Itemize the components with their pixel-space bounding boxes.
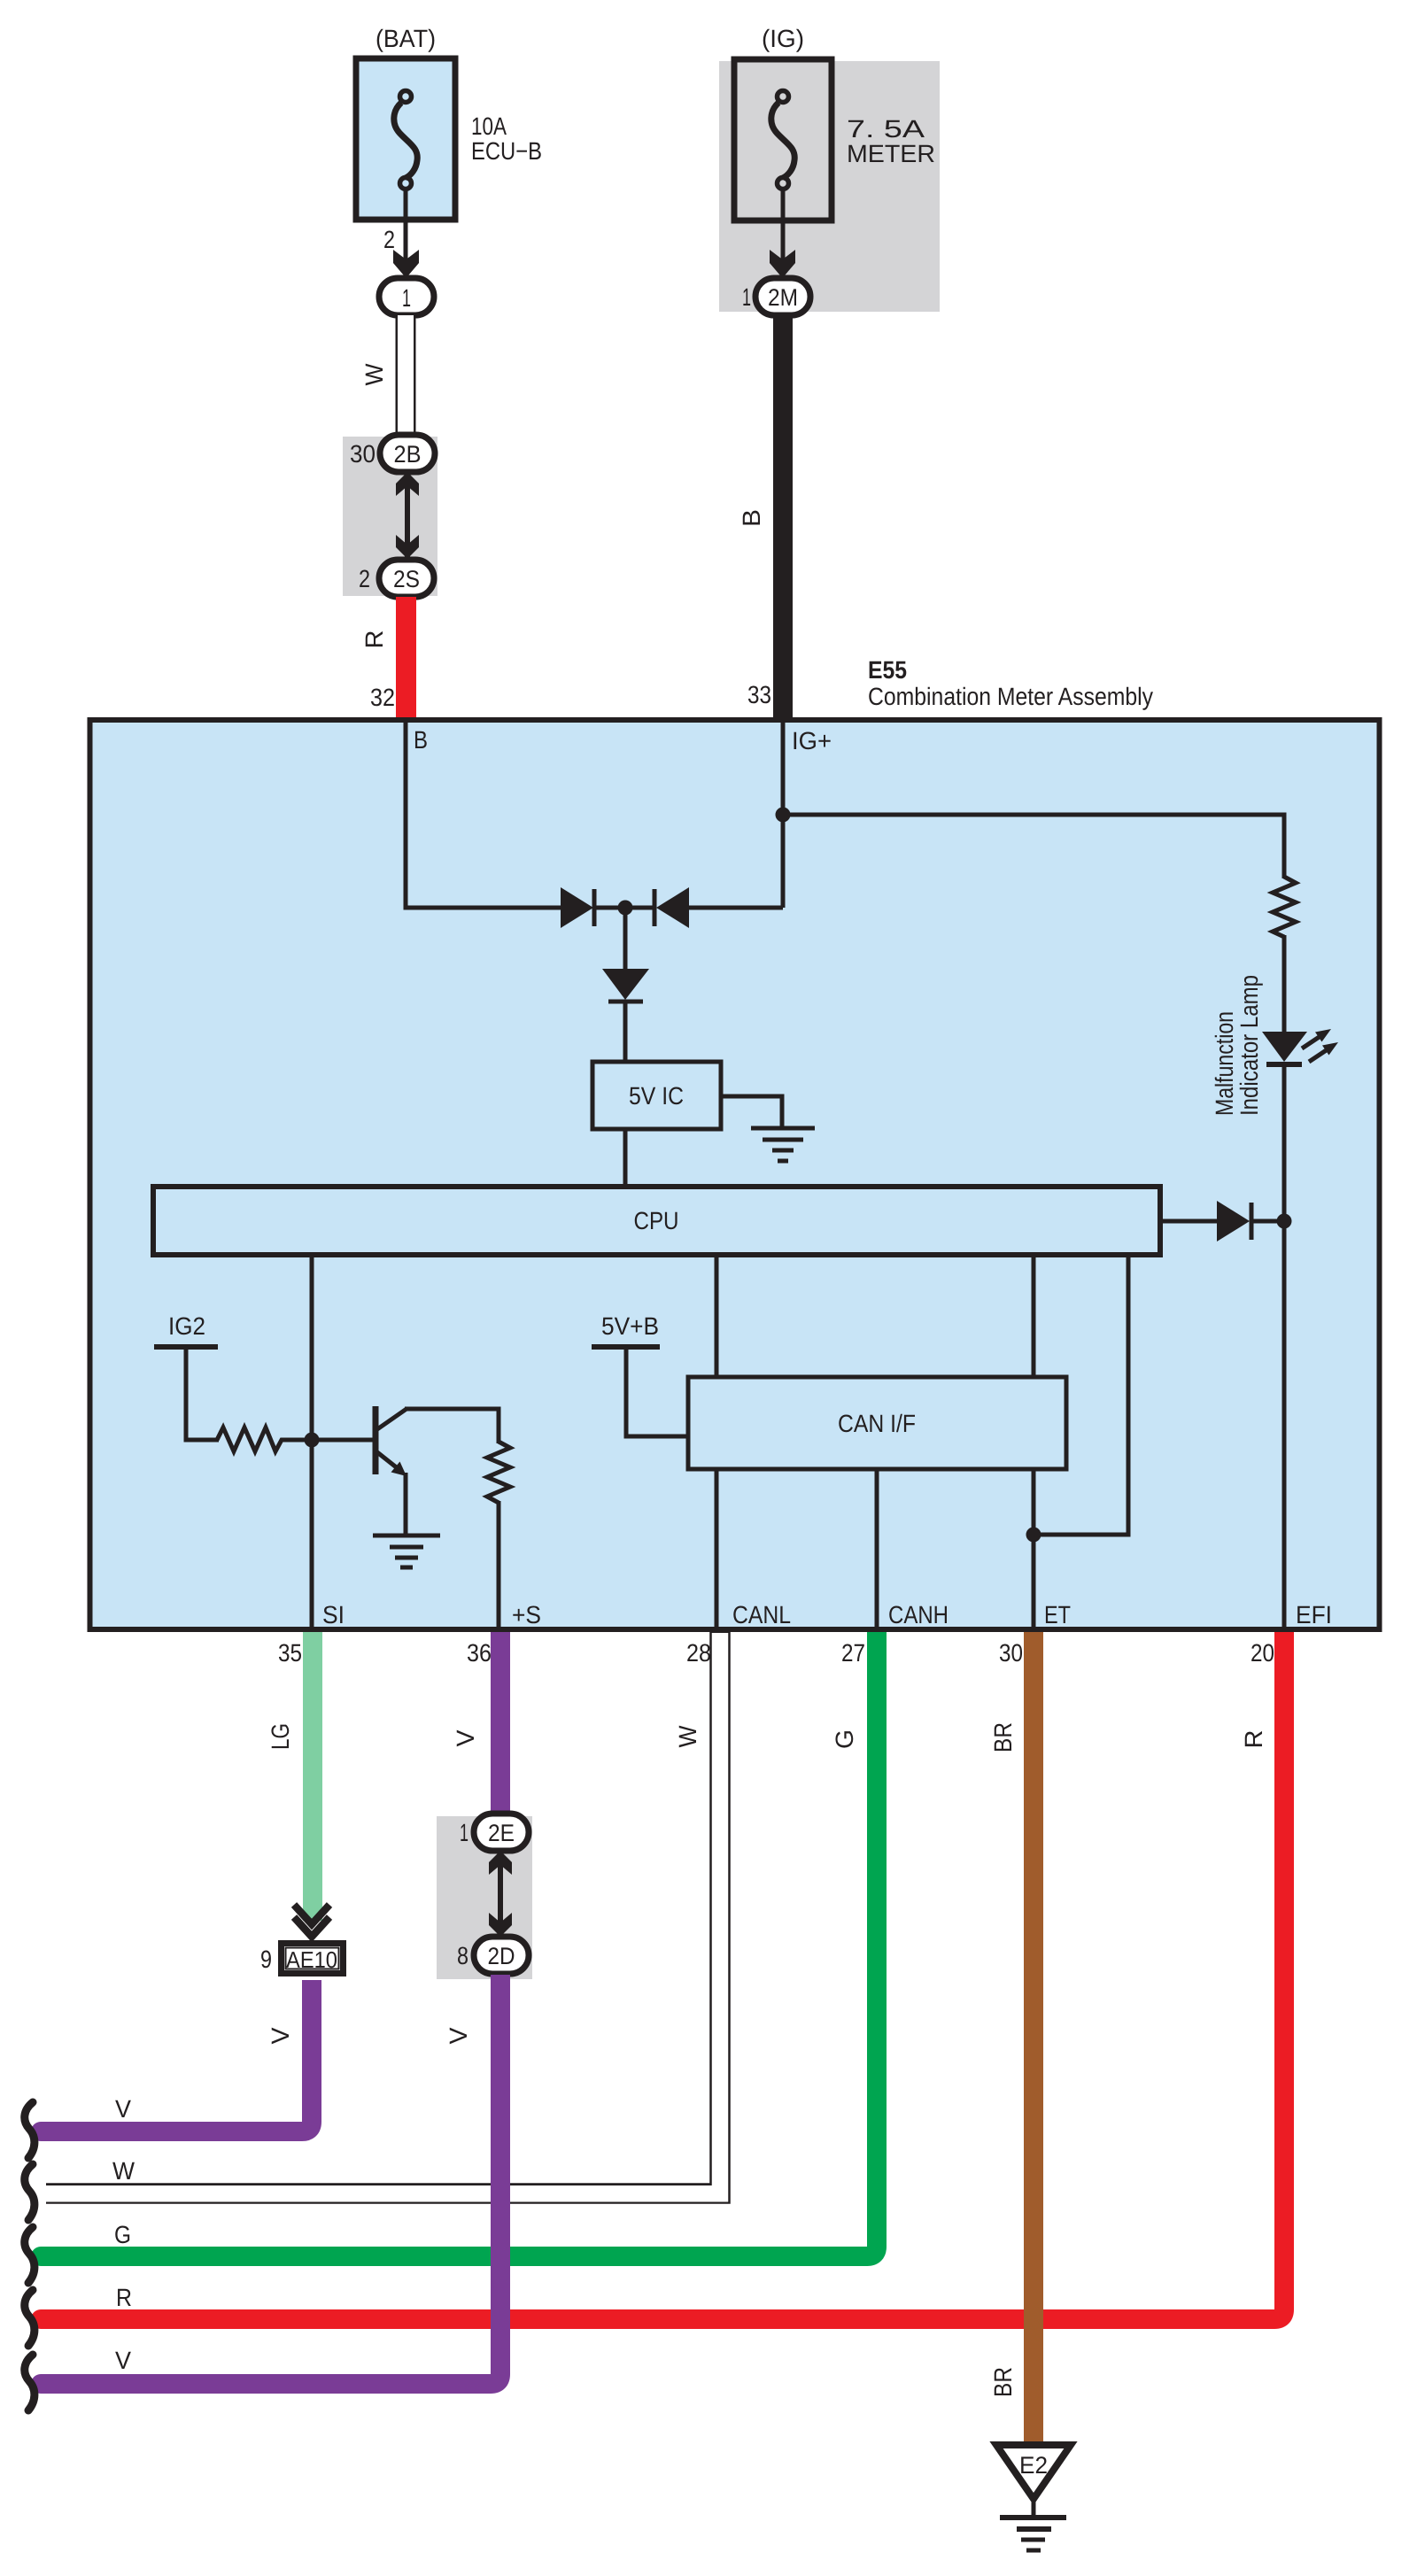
svg-text:W: W — [360, 363, 388, 386]
svg-text:2E: 2E — [488, 1820, 515, 1846]
wire 5V IC to CPU — [623, 1129, 628, 1187]
svg-text:36: 36 — [467, 1639, 492, 1667]
svg-text:IG+: IG+ — [792, 727, 832, 754]
node junction dot ET — [1026, 1528, 1041, 1543]
node junction dot diodes — [618, 901, 633, 916]
junction block gray box (IG) — [719, 61, 940, 312]
wire collector to resistor — [405, 1409, 499, 1443]
svg-text:V: V — [267, 2027, 294, 2044]
svg-text:5V+B: 5V+B — [601, 1312, 659, 1340]
svg-text:1: 1 — [742, 283, 751, 311]
resistor MIL — [1273, 877, 1296, 937]
svg-text:E2: E2 — [1019, 2452, 1048, 2479]
svg-text:+S: +S — [512, 1601, 541, 1628]
wire ET branch to CPU — [1034, 1255, 1128, 1535]
svg-text:2M: 2M — [768, 284, 798, 311]
wire junction to 5V IC — [623, 908, 628, 971]
svg-text:R: R — [1240, 1730, 1267, 1749]
male terminal arrow 2M — [770, 250, 795, 278]
svg-text:V: V — [445, 2027, 472, 2044]
svg-text:V: V — [115, 2347, 131, 2374]
svg-text:W: W — [674, 1725, 701, 1748]
node junction dot IG+ — [776, 808, 791, 823]
connector 2D — [474, 1937, 529, 1974]
svg-text:BR: BR — [989, 2367, 1017, 2397]
svg-text:AE10: AE10 — [286, 1946, 337, 1973]
LED malfunction indicator lamp — [1262, 1029, 1338, 1067]
ground 5V IC — [751, 1128, 815, 1161]
node 5V+B — [592, 1312, 688, 1436]
svg-text:35: 35 — [278, 1639, 302, 1667]
fuse 10A ECU-B — [356, 58, 455, 220]
svg-text:ET: ET — [1044, 1601, 1071, 1628]
svg-text:2: 2 — [383, 226, 395, 253]
svg-text:V: V — [452, 1729, 479, 1746]
svg-text:Indicator Lamp: Indicator Lamp — [1235, 975, 1263, 1116]
wire V (purple) from +S — [491, 1632, 510, 1814]
svg-text:32: 32 — [370, 684, 395, 711]
junction block 2E/2D gray box — [437, 1816, 532, 1979]
svg-text:30: 30 — [999, 1639, 1023, 1667]
wire CPU to CAN I/F left — [715, 1255, 719, 1377]
svg-text:(BAT): (BAT) — [376, 25, 436, 52]
wire fuse to connector 2M — [781, 190, 786, 276]
wire emitter to ground — [404, 1473, 408, 1536]
double arrow 2B-2S — [396, 472, 419, 559]
svg-text:7. 5A: 7. 5A — [847, 115, 925, 143]
svg-text:EFI: EFI — [1296, 1601, 1332, 1628]
svg-text:20: 20 — [1251, 1639, 1274, 1667]
svg-text:1: 1 — [402, 284, 411, 312]
svg-text:Combination Meter Assembly: Combination Meter Assembly — [868, 683, 1153, 710]
harness break squiggle R — [25, 2290, 35, 2346]
svg-text:BR: BR — [989, 1722, 1017, 1752]
label Malfunction Indicator Lamp — [1211, 975, 1263, 1116]
transistor Q1 — [376, 1406, 407, 1476]
wire R (red) EFI to harness — [41, 1632, 1284, 2319]
wire CPU to SI — [310, 1255, 314, 1630]
connector 2S — [379, 560, 434, 597]
node junction dot base — [305, 1433, 320, 1448]
wire G (green) CANH to harness — [41, 1632, 877, 2256]
wire IG+ to MIL branch — [783, 815, 1284, 878]
CAN I/F block — [688, 1377, 1066, 1469]
wire resistor to LED — [1282, 935, 1287, 1033]
ground transistor emitter — [373, 1536, 440, 1567]
svg-text:CPU: CPU — [634, 1207, 679, 1234]
diode D3 (to 5V IC) — [602, 969, 649, 1062]
wire base to transistor — [312, 1438, 373, 1443]
wire ET internal — [1032, 1469, 1036, 1630]
double arrow 2E-2D — [489, 1851, 512, 1937]
svg-text:8: 8 — [457, 1942, 468, 1969]
wire CANL internal — [715, 1469, 719, 1630]
svg-text:CANH: CANH — [888, 1601, 949, 1628]
svg-text:2S: 2S — [393, 566, 420, 592]
wire fuse to connector 1 — [404, 190, 408, 276]
diode D1 (from B) — [561, 887, 618, 928]
harness break squiggle V1 — [25, 2102, 35, 2158]
junction block 2B/2S gray box — [343, 437, 437, 596]
CPU block — [153, 1187, 1160, 1255]
connector 1 — [379, 278, 434, 315]
wire W (white) connector 1 to 2B — [396, 315, 416, 437]
wire B (black) 2M to pin 33 — [773, 315, 793, 720]
harness break squiggle V2 — [25, 2355, 35, 2410]
svg-text:9: 9 — [260, 1946, 272, 1973]
wire IG+ internal — [781, 720, 786, 908]
connector AE10 — [282, 1944, 344, 1974]
svg-text:G: G — [831, 1729, 858, 1749]
svg-text:(IG): (IG) — [762, 25, 804, 52]
male terminal arrow — [393, 250, 419, 278]
svg-text:B: B — [738, 509, 765, 527]
wire LED to EFI node — [1282, 1065, 1287, 1630]
wire W (white) CANL to harness — [39, 1630, 720, 2193]
resistor +S pull — [487, 1442, 510, 1503]
connector 2B — [380, 435, 435, 472]
svg-text:10A: 10A — [471, 112, 507, 140]
connector 2E — [474, 1814, 529, 1851]
svg-text:B: B — [414, 726, 428, 754]
regulator 5V IC — [592, 1062, 721, 1129]
node IG2 — [154, 1312, 219, 1440]
wire CPU to CAN I/F right — [1032, 1255, 1036, 1377]
svg-text:Malfunction: Malfunction — [1211, 1011, 1238, 1116]
svg-text:1: 1 — [460, 1819, 468, 1846]
svg-text:28: 28 — [686, 1639, 711, 1667]
resistor base IG2 — [217, 1427, 312, 1451]
svg-text:30: 30 — [350, 440, 376, 468]
wire V (purple) 2D to harness — [41, 1975, 500, 2384]
svg-text:ECU−B: ECU−B — [471, 137, 542, 165]
svg-text:V: V — [115, 2095, 131, 2123]
svg-text:LG: LG — [267, 1723, 294, 1750]
svg-text:CAN I/F: CAN I/F — [838, 1410, 916, 1437]
svg-text:G: G — [114, 2221, 131, 2248]
harness break squiggle W — [25, 2164, 35, 2220]
ground E2 — [996, 2445, 1071, 2550]
wire BR (brown) ET to E2 — [1024, 1632, 1043, 2444]
fuse 7.5A METER — [734, 59, 832, 220]
wire R (red) 2S to pin 32 — [396, 597, 416, 721]
combination meter assembly E55 box — [90, 720, 1380, 1629]
svg-text:5V IC: 5V IC — [629, 1082, 684, 1110]
svg-text:E55: E55 — [868, 656, 907, 684]
node junction dot EFI — [1277, 1214, 1292, 1229]
svg-text:R: R — [360, 630, 388, 649]
svg-text:IG2: IG2 — [168, 1312, 205, 1340]
wire V from AE10 — [41, 1980, 312, 2131]
svg-text:CANL: CANL — [732, 1601, 791, 1628]
svg-text:33: 33 — [747, 681, 771, 708]
connector 2M — [755, 278, 810, 315]
diode D2 (from IG+) — [632, 887, 783, 928]
female terminal chevrons — [294, 1905, 329, 1937]
wire B internal — [406, 720, 562, 908]
svg-text:R: R — [116, 2284, 132, 2311]
svg-text:W: W — [112, 2157, 136, 2185]
svg-text:2D: 2D — [488, 1943, 515, 1969]
wire 5V IC to ground — [721, 1096, 782, 1128]
svg-text:SI: SI — [322, 1601, 345, 1628]
svg-text:2: 2 — [359, 565, 370, 592]
svg-text:2B: 2B — [394, 441, 422, 468]
harness break squiggle G — [25, 2227, 35, 2283]
wire resistor to +S pin — [497, 1501, 501, 1630]
wire LG (light green) from SI — [303, 1632, 322, 1921]
wire CANH internal — [875, 1469, 879, 1630]
svg-text:METER: METER — [847, 140, 935, 167]
diode D4 (CPU to EFI) — [1163, 1201, 1284, 1242]
svg-text:27: 27 — [841, 1639, 865, 1667]
